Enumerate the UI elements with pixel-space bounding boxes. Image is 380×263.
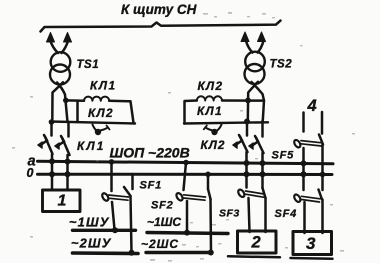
svg-text:КЛ1: КЛ1 <box>90 78 117 92</box>
svg-text:~1ШС: ~1ШС <box>147 215 181 229</box>
svg-text:ТS2: ТS2 <box>270 59 293 71</box>
svg-text:КЛ2: КЛ2 <box>201 138 226 152</box>
svg-text:ШОП ~220В: ШОП ~220В <box>110 145 190 161</box>
svg-text:КЛ1: КЛ1 <box>197 104 223 118</box>
svg-text:SF4: SF4 <box>275 208 298 220</box>
svg-text:~2ШУ: ~2ШУ <box>71 235 112 250</box>
svg-text:4: 4 <box>307 97 317 115</box>
svg-text:1: 1 <box>58 193 67 210</box>
svg-text:0: 0 <box>27 166 34 180</box>
svg-text:ТS1: ТS1 <box>77 59 100 71</box>
svg-text:SF3: SF3 <box>219 208 240 220</box>
svg-text:КЛ1: КЛ1 <box>77 139 106 153</box>
svg-text:~1ШУ: ~1ШУ <box>69 214 110 229</box>
svg-text:КЛ2: КЛ2 <box>198 79 224 93</box>
svg-text:КЛ2: КЛ2 <box>88 106 114 120</box>
svg-text:3: 3 <box>306 234 316 253</box>
svg-text:SF5: SF5 <box>272 150 295 162</box>
svg-text:~2ШС: ~2ШС <box>141 237 179 251</box>
svg-text:SF2: SF2 <box>151 200 174 212</box>
svg-text:SF1: SF1 <box>140 180 163 192</box>
svg-text:2: 2 <box>251 234 261 252</box>
svg-text:К щиту СН: К щиту СН <box>121 2 197 17</box>
